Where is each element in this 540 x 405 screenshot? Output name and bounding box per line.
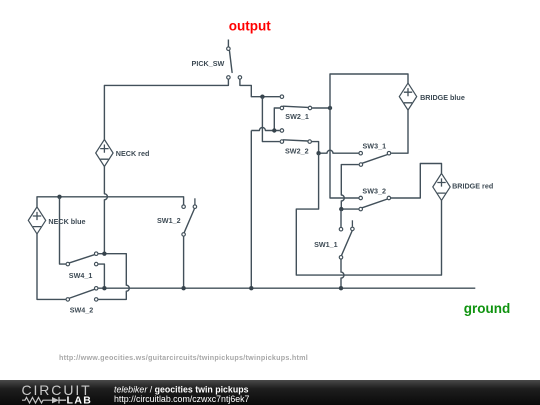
wire output stub to PICK_5W common [227,40,229,47]
svg-text:BRIDGE blue: BRIDGE blue [420,93,465,102]
wire ground bus [98,287,475,289]
wire node C horizontal with hop over x=262.4 [251,128,279,131]
svg-text:http://circuitlab.com/czwxc7nt: http://circuitlab.com/czwxc7ntj6ek7 [114,394,250,404]
wire node D to SW3_1 upper throw with hop over x=330 [319,150,359,153]
wire PICK_5W throw1 to NECK red top [104,80,228,140]
switch SW2_2 [280,129,311,156]
wire SW2_1 common to BRIDGE blue net [312,107,330,109]
switch SW1_1 [314,220,354,259]
wire node G down to SW4_1 common [60,197,66,264]
wire NECK blue bottom to SW4_2 common [37,234,66,300]
svg-text:SW3_1: SW3_1 [363,142,387,151]
svg-text:SW4_1: SW4_1 [69,271,93,280]
svg-text:http://www.geocities.ws/guitar: http://www.geocities.ws/guitarcircuits/t… [59,353,308,362]
source BRIDGE red [433,173,493,200]
wire node E to SW3_2 lower throw [341,208,358,210]
switch PICK_5W [192,47,242,79]
CircuitLab logo resistor and diode glyph [22,397,52,403]
svg-text:PICK_SW: PICK_SW [192,59,225,68]
junction ground bus at x=251.3 [249,286,253,290]
junction at node F (104.4,253.7) [102,252,106,256]
junction at node D (318.6,153.2) [316,151,320,155]
switch SW2_1 [280,95,312,121]
wire NECK blue top row to SW1_2 upper-left throw [37,197,184,207]
wire NECK red bottom down to node F with hop over y=196.8 [104,167,107,254]
switch SW4_2 [66,287,98,315]
svg-text:NECK red: NECK red [116,149,150,158]
switch SW3_2 [359,187,391,211]
svg-text:telebiker / geocities twin pic: telebiker / geocities twin pickups [114,385,249,395]
svg-text:SW1_1: SW1_1 [314,240,338,249]
wire SW2_2 common to node D [312,142,319,154]
source BRIDGE blue [399,83,465,110]
source NECK red [96,140,150,167]
wire node C down to ground bus [250,131,252,289]
wire node D down around to BRIDGE red minus terminal [296,153,441,275]
wire PICK_5W throw2 to SW2_1 upper throw [240,80,280,97]
svg-text:LAB: LAB [67,395,93,405]
wire node F to SW4_1 upper throw [98,253,104,255]
svg-text:SW2_2: SW2_2 [285,146,309,155]
wire node B down to SW3_2 upper throw [330,108,359,198]
wire SW3_2 common to BRIDGE red plus terminal [391,164,442,199]
svg-text:SW4_2: SW4_2 [70,305,94,314]
wire SW3_1 lower throw down to node E with hop over y=198 [341,165,359,210]
wire node F around to SW4_2 lower throw with hop over bus [98,254,129,300]
junction at node G (59.5,196.8) [57,195,61,199]
junction at node C (274.3,130.5) [272,128,276,132]
junction at node A (262.4,96.7) [260,95,264,99]
svg-text:output: output [229,19,271,34]
svg-text:ground: ground [464,301,511,316]
junction at node E (341.3,209.1) [339,207,343,211]
switch SW4_1 [66,252,98,280]
svg-text:SW3_2: SW3_2 [362,187,386,196]
wire node A down to SW2_2 lower throw [262,97,279,142]
svg-text:SW1_2: SW1_2 [157,216,181,225]
wire node B up to BRIDGE blue plus terminal [330,74,408,108]
wire SW1_1 common down to ground bus with hop over y=275.1 [341,259,344,288]
wire SW2_1 lower throw to node C [274,108,280,131]
junction ground bus at x=341 [339,286,343,290]
svg-text:NECK blue: NECK blue [48,217,85,226]
source NECK blue [28,207,85,234]
wire SW4_1 lower throw down to ground bus [98,264,104,288]
junction ground bus at x=104.4 [102,286,106,290]
wire SW1_2 common down to ground bus [183,237,185,289]
junction ground bus at x=183.6 [181,286,185,290]
junction at node B (330,108) [328,106,332,110]
switch SW1_2 [157,198,197,236]
svg-text:BRIDGE red: BRIDGE red [452,181,493,190]
wire SW3_1 common to BRIDGE blue minus terminal [391,110,408,153]
wire node E down to SW1_1 upper-left throw [340,209,342,227]
svg-text:SW2_1: SW2_1 [285,112,309,121]
switch SW3_1 [359,142,391,167]
